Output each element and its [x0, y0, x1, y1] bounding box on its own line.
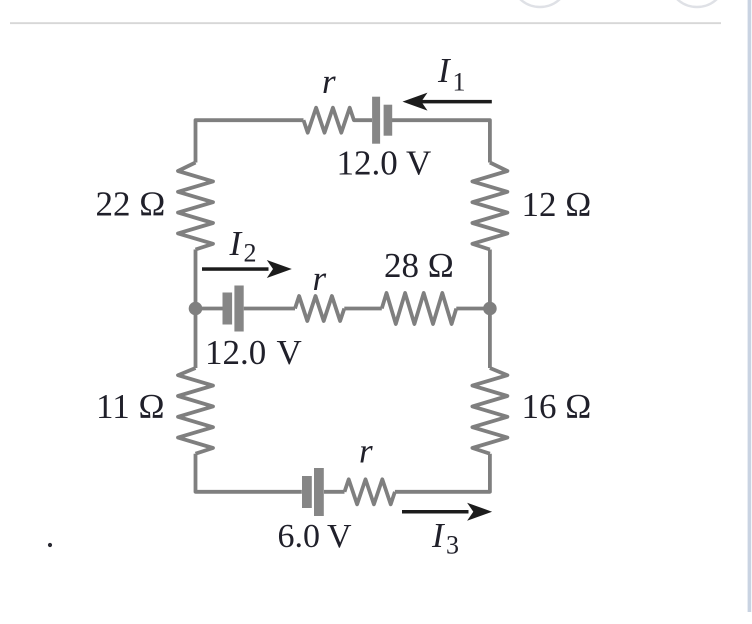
- stray period: [48, 543, 52, 547]
- node right junction: [483, 302, 497, 316]
- svg-text:2: 2: [244, 239, 257, 268]
- battery middle 12.0 V : long plate: [234, 286, 243, 332]
- resistor 16ohm (right bottom): [472, 368, 507, 454]
- resistor r (middle, internal resistance of 12.0 V battery): [295, 296, 344, 321]
- svg-text:r: r: [313, 259, 327, 298]
- wire bottom-left segment: [196, 454, 302, 492]
- wire bottom between battery and r: [324, 490, 345, 494]
- svg-text:12.0: 12.0: [205, 333, 266, 372]
- UI arc left (bottom of circle): [511, 0, 569, 7]
- wire right middle: [488, 250, 492, 369]
- current arrow I2 (pointing right): [202, 260, 292, 278]
- wire middle stub from left node: [196, 307, 223, 311]
- svg-text:16 Ω: 16 Ω: [522, 387, 592, 426]
- svg-text:1: 1: [453, 68, 466, 97]
- current arrow I3 (pointing right): [402, 503, 492, 521]
- svg-text:V: V: [277, 333, 302, 372]
- svg-text:V: V: [327, 518, 352, 555]
- resistor 12ohm (right top): [472, 163, 507, 250]
- battery top 12.0 V : short plate: [384, 105, 393, 136]
- resistor r (bottom, internal resistance of 6.0 V battery): [345, 479, 395, 504]
- svg-text:6.0: 6.0: [278, 518, 321, 555]
- wire top-left segment: [196, 120, 304, 162]
- svg-text:V: V: [406, 144, 431, 183]
- resistor 11ohm (left bottom): [178, 368, 213, 454]
- svg-text:22 Ω: 22 Ω: [96, 185, 166, 224]
- top hairline rule: [10, 22, 721, 24]
- battery middle 12.0 V : short plate: [223, 293, 233, 325]
- svg-text:28 Ω: 28 Ω: [384, 246, 454, 285]
- wire top-right segment: [392, 120, 490, 162]
- resistor 22ohm (left top): [178, 163, 213, 250]
- battery bottom 6.0 V : long plate: [314, 468, 324, 516]
- battery top 12.0 V : long plate: [372, 97, 380, 144]
- svg-text:r: r: [359, 432, 373, 471]
- right scrollbar line: [748, 0, 752, 612]
- svg-text:r: r: [322, 62, 336, 101]
- wire middle right of 28ohm: [456, 307, 490, 311]
- wire left middle: [194, 250, 198, 369]
- resistor 28ohm (middle): [382, 293, 457, 324]
- battery bottom 6.0 V : short plate: [302, 476, 312, 508]
- current arrow I1 (pointing left): [403, 93, 492, 111]
- UI arc right (bottom of circle): [668, 0, 726, 7]
- resistor r (top, internal resistance of 12.0 V battery): [304, 108, 373, 133]
- node left junction: [189, 302, 203, 316]
- wire middle between r and 28ohm: [344, 307, 382, 311]
- svg-text:12 Ω: 12 Ω: [522, 185, 592, 224]
- wire bottom-right segment: [395, 454, 490, 492]
- svg-text:3: 3: [446, 531, 459, 560]
- svg-text:12.0: 12.0: [337, 144, 398, 183]
- wire middle left of r: [244, 307, 295, 311]
- svg-text:11 Ω: 11 Ω: [96, 387, 164, 426]
